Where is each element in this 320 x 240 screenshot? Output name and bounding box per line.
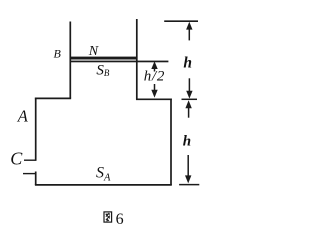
dim h/2 up-arrow: [154, 64, 156, 72]
svg-text:N: N: [88, 44, 99, 59]
dim top-h top tick: [164, 20, 198, 22]
wire left-wall-upper: [35, 98, 37, 161]
svg-text:h: h: [183, 133, 191, 149]
wire tube-left-wall: [69, 22, 71, 99]
dim bottom tick: [179, 184, 199, 186]
dim middle tick: [182, 98, 198, 100]
svg-text:SA: SA: [96, 164, 111, 183]
wire left-step: [35, 97, 71, 99]
node C upper tick: [24, 159, 36, 161]
wire tube-right-wall: [136, 19, 138, 100]
svg-text:6: 6: [116, 211, 124, 228]
wire bottom: [35, 184, 172, 186]
piston N upper plate: [70, 57, 138, 60]
wire right-step: [136, 98, 172, 100]
dim h/2 down-arrow: [154, 84, 156, 91]
wire right-wall: [170, 99, 172, 186]
dim top-h up-arrow: [188, 27, 190, 41]
svg-text:h: h: [183, 54, 192, 71]
svg-text:B: B: [54, 46, 62, 60]
svg-text:SB: SB: [96, 62, 110, 78]
dim bottom-h down-arrow: [187, 155, 189, 177]
svg-text:C: C: [10, 148, 23, 168]
dim bottom-h up-arrow: [188, 106, 190, 118]
svg-text:A: A: [17, 106, 29, 125]
node C lower tick: [23, 173, 36, 175]
piston N lower plate (extends right as h/2 reference): [70, 61, 168, 63]
caption glyph 图: [104, 212, 112, 222]
svg-text:h/2: h/2: [144, 69, 165, 85]
dim top-h down-arrow: [188, 78, 190, 92]
wire left-wall-lower: [35, 172, 37, 186]
